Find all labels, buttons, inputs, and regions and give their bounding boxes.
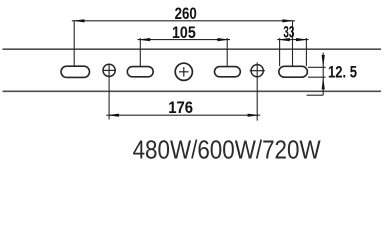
svg-text:33: 33 [283, 23, 294, 41]
center hole U0 [175, 63, 192, 80]
rail top edge [3, 48, 382, 50]
svg-text:480W/600W/720W: 480W/600W/720W [133, 134, 321, 164]
hole crosshair H1 [103, 64, 116, 77]
dimension 176 [106, 62, 260, 120]
svg-text:105: 105 [172, 24, 196, 42]
svg-text:176: 176 [168, 99, 193, 117]
svg-text:260: 260 [175, 5, 197, 23]
slot S1 [61, 66, 90, 77]
dimension 105 [138, 24, 231, 66]
dimension 12.5 [307, 53, 358, 96]
dimension 33 [277, 23, 308, 66]
rail bottom edge [3, 90, 382, 92]
dimension 260 [72, 5, 295, 66]
slot S2 [127, 67, 153, 77]
wattage label [133, 134, 321, 164]
hole crosshair H2 [250, 65, 265, 77]
slot S4 [279, 66, 308, 77]
svg-text:12. 5: 12. 5 [328, 63, 357, 81]
slot S3 [215, 67, 241, 77]
